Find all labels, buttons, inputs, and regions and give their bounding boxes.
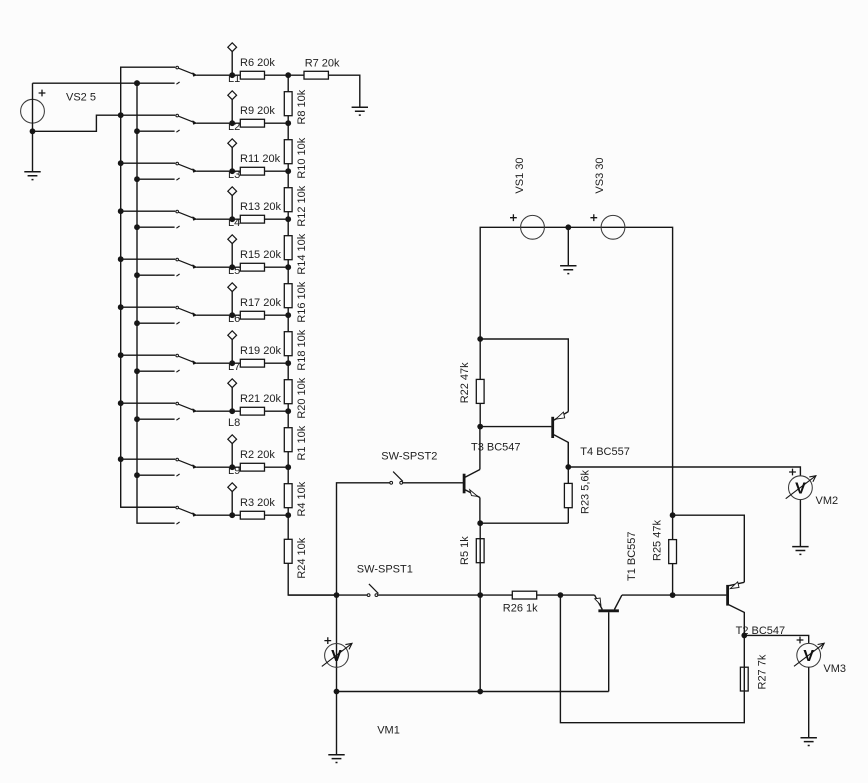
svg-text:R20 10k: R20 10k bbox=[296, 377, 308, 418]
svg-text:R1 10k: R1 10k bbox=[296, 425, 308, 460]
wire VM1 top bbox=[336, 595, 338, 691]
resistor R8 bbox=[284, 89, 308, 124]
wire main column low bbox=[479, 595, 481, 691]
node ladder row9 bbox=[285, 464, 291, 470]
wire L1 lower contact bbox=[137, 82, 175, 84]
wire L7 lower contact bbox=[137, 370, 175, 372]
wire bus B bbox=[137, 83, 175, 523]
svg-text:R7 20k: R7 20k bbox=[305, 57, 340, 69]
label L5 bbox=[228, 265, 240, 277]
wire L4 lower contact bbox=[137, 226, 175, 228]
wire R22 to T4 emitter bbox=[480, 339, 568, 412]
svg-text:R24 10k: R24 10k bbox=[296, 537, 308, 578]
node bus A row9 bbox=[118, 456, 124, 462]
wire R22 branch bbox=[479, 339, 481, 427]
svg-text:R19 20k: R19 20k bbox=[240, 345, 281, 357]
node ladder row2 bbox=[285, 120, 291, 126]
actuator diamond L7 bbox=[228, 331, 237, 340]
node ladder row10 bbox=[285, 512, 291, 518]
svg-text:R16 10k: R16 10k bbox=[296, 281, 308, 322]
svg-text:R18 10k: R18 10k bbox=[296, 329, 308, 370]
wire L3 lower contact bbox=[137, 178, 175, 180]
voltage source VS2 bbox=[21, 90, 96, 123]
actuator diamond L3 bbox=[228, 139, 237, 148]
label L4 bbox=[228, 217, 240, 229]
svg-text:L6: L6 bbox=[228, 313, 240, 325]
svg-text:R2 20k: R2 20k bbox=[240, 449, 275, 461]
switch L4 bbox=[176, 210, 197, 228]
node ladder row4 bbox=[285, 216, 291, 222]
voltage source VS3 bbox=[590, 158, 624, 240]
wire L3 actuator stem bbox=[231, 148, 233, 172]
resistor R11 bbox=[240, 153, 281, 175]
node L7 bbox=[229, 360, 235, 366]
svg-text:R8 10k: R8 10k bbox=[296, 89, 308, 124]
voltmeter VM1 bbox=[322, 637, 400, 736]
node L1 bbox=[229, 72, 235, 78]
wire L2 to ladder bbox=[196, 122, 288, 124]
node T3 emitter node bbox=[477, 520, 483, 526]
wire R27 loop bbox=[560, 595, 744, 723]
switch L6 bbox=[176, 306, 197, 324]
transistor T1 bbox=[595, 531, 639, 691]
node R22 top bbox=[477, 336, 483, 342]
wire L1 actuator stem bbox=[231, 52, 233, 76]
actuator diamond L2 bbox=[228, 91, 237, 100]
node bus B row1 bbox=[134, 80, 140, 86]
svg-text:R14 10k: R14 10k bbox=[296, 233, 308, 274]
wire L6 lower contact bbox=[137, 322, 175, 324]
node main column bottom bbox=[477, 689, 483, 695]
node T2 emitter node bbox=[741, 633, 747, 639]
wire L9 upper contact bbox=[121, 458, 176, 460]
wire VM1 to T1 base bbox=[337, 691, 609, 693]
label L2 bbox=[228, 121, 240, 133]
resistor R18 bbox=[284, 329, 308, 370]
svg-text:R9 20k: R9 20k bbox=[240, 105, 275, 117]
wire SPST1 left bbox=[288, 594, 367, 596]
svg-text:SW-SPST2: SW-SPST2 bbox=[381, 451, 437, 463]
wire L7 actuator stem bbox=[231, 340, 233, 364]
node bus A row7 bbox=[118, 352, 124, 358]
svg-text:V: V bbox=[331, 648, 342, 665]
node ladder row1 bbox=[285, 72, 291, 78]
resistor R7 bbox=[304, 57, 340, 79]
node L9 bbox=[229, 464, 235, 470]
wire VM2 to ground bbox=[799, 500, 801, 547]
actuator diamond L5 bbox=[228, 235, 237, 244]
node R5 bottom bbox=[477, 592, 483, 598]
wire L7 to ladder bbox=[196, 362, 288, 364]
node bus A row3 bbox=[118, 160, 124, 166]
label L8 bbox=[228, 417, 240, 429]
node bus B row3 bbox=[134, 176, 140, 182]
svg-text:R21 20k: R21 20k bbox=[240, 393, 281, 405]
wire T4 base bbox=[480, 426, 551, 428]
voltmeter VM2 bbox=[786, 469, 838, 507]
node ladder row6 bbox=[285, 312, 291, 318]
resistor R24 bbox=[284, 537, 308, 578]
wire L9 lower contact bbox=[137, 474, 175, 476]
svg-text:R22 47k: R22 47k bbox=[459, 362, 471, 403]
svg-text:R3 20k: R3 20k bbox=[240, 497, 275, 509]
actuator diamond L6 bbox=[228, 283, 237, 292]
wire L8 lower contact bbox=[137, 418, 175, 420]
svg-text:VS2 5: VS2 5 bbox=[66, 91, 96, 103]
transistor T3 bbox=[464, 442, 520, 498]
node bus B row4 bbox=[134, 224, 140, 230]
svg-text:R17 20k: R17 20k bbox=[240, 297, 281, 309]
label L1 bbox=[228, 73, 240, 85]
svg-text:R10 10k: R10 10k bbox=[296, 137, 308, 178]
svg-text:V: V bbox=[795, 480, 806, 497]
wire ladder top to ground bbox=[288, 75, 360, 107]
resistor R27 bbox=[740, 654, 768, 691]
wire L3 upper contact bbox=[121, 162, 176, 164]
node L2 bbox=[229, 120, 235, 126]
ground VM2 bbox=[792, 547, 808, 555]
node L3 bbox=[229, 168, 235, 174]
resistor R19 bbox=[240, 345, 281, 367]
resistor R1 bbox=[284, 425, 308, 460]
node L4 bbox=[229, 216, 235, 222]
label L9 bbox=[228, 465, 240, 477]
svg-text:R4 10k: R4 10k bbox=[296, 481, 308, 516]
svg-text:R26 1k: R26 1k bbox=[503, 603, 538, 615]
svg-text:L3: L3 bbox=[228, 169, 240, 181]
wire L8 upper contact bbox=[121, 402, 176, 404]
svg-text:VS1 30: VS1 30 bbox=[514, 158, 526, 194]
svg-text:R6 20k: R6 20k bbox=[240, 57, 275, 69]
node R25 bottom bbox=[670, 592, 676, 598]
wire supply rail bbox=[480, 227, 672, 515]
wire L5 upper contact bbox=[121, 258, 176, 260]
node bus B row6 bbox=[134, 320, 140, 326]
wire L6 to ladder bbox=[196, 314, 288, 316]
voltage source VS1 bbox=[510, 158, 544, 240]
node L8 bbox=[229, 408, 235, 414]
svg-text:R11 20k: R11 20k bbox=[240, 153, 281, 165]
switch L7 bbox=[176, 354, 197, 372]
wire L2 upper contact bbox=[121, 114, 176, 116]
transistor T4 bbox=[553, 412, 630, 466]
wire L2 lower contact bbox=[137, 130, 175, 132]
label L7 bbox=[228, 361, 240, 373]
resistor R21 bbox=[240, 393, 281, 415]
svg-text:VS3 30: VS3 30 bbox=[594, 158, 606, 194]
node ladder row7 bbox=[285, 360, 291, 366]
wire ladder bus bbox=[288, 75, 336, 595]
wire R23 bottom bbox=[480, 522, 568, 524]
ground VS2 bbox=[24, 172, 40, 180]
ground supply bbox=[560, 266, 576, 274]
svg-text:VM1: VM1 bbox=[377, 725, 400, 737]
svg-text:R25 47k: R25 47k bbox=[652, 520, 664, 561]
label L3 bbox=[228, 169, 240, 181]
resistor R13 bbox=[240, 201, 281, 223]
wire L5 to ladder bbox=[196, 266, 288, 268]
svg-text:L2: L2 bbox=[228, 121, 240, 133]
wire to VM3 bbox=[744, 635, 808, 643]
node supply ground tap bbox=[565, 224, 571, 230]
svg-text:T3 BC547: T3 BC547 bbox=[471, 442, 521, 454]
wire bus A bbox=[121, 67, 176, 507]
node bus A row5 bbox=[118, 256, 124, 262]
svg-text:R27 7k: R27 7k bbox=[757, 654, 769, 689]
wire R25 column bbox=[672, 515, 674, 595]
wire L6 upper contact bbox=[121, 306, 176, 308]
resistor R3 bbox=[240, 497, 275, 519]
actuator diamond L8 bbox=[228, 379, 237, 388]
svg-text:T4 BC557: T4 BC557 bbox=[580, 446, 630, 458]
wire L5 lower contact bbox=[137, 274, 175, 276]
resistor R17 bbox=[240, 297, 281, 319]
node bus B row2 bbox=[134, 128, 140, 134]
node R23 top bbox=[565, 464, 571, 470]
resistor R20 bbox=[284, 377, 308, 418]
wire L5 actuator stem bbox=[231, 244, 233, 268]
node bus B row8 bbox=[134, 416, 140, 422]
node bus B row9 bbox=[134, 472, 140, 478]
wire L4 actuator stem bbox=[231, 196, 233, 220]
voltmeter VM3 bbox=[794, 637, 846, 675]
switch L10 bbox=[176, 506, 197, 524]
svg-text:L8: L8 bbox=[228, 417, 240, 429]
actuator diamond L4 bbox=[228, 187, 237, 196]
resistor R25 bbox=[652, 520, 677, 564]
wire T1 collector to node bbox=[622, 594, 727, 596]
wire L9 to ladder bbox=[196, 466, 288, 468]
svg-text:R13 20k: R13 20k bbox=[240, 201, 281, 213]
svg-text:L4: L4 bbox=[228, 217, 240, 229]
resistor R23 bbox=[564, 469, 591, 514]
wire L8 actuator stem bbox=[231, 388, 233, 412]
switch SW-SPST2 bbox=[381, 451, 437, 484]
resistor R5 bbox=[459, 536, 484, 565]
svg-text:R5 1k: R5 1k bbox=[459, 536, 471, 565]
wire L4 to ladder bbox=[196, 218, 288, 220]
wire L10 actuator stem bbox=[231, 492, 233, 516]
wire T4 collector to R23 bbox=[567, 442, 569, 523]
wire L10 to ladder bbox=[196, 514, 288, 516]
wire VS2 vertical bbox=[32, 83, 34, 171]
node bus B row5 bbox=[134, 272, 140, 278]
node VS2 minus bbox=[30, 128, 36, 134]
ground R7 bbox=[352, 107, 368, 115]
node L6 bbox=[229, 312, 235, 318]
wire L8 to ladder bbox=[196, 410, 288, 412]
node R25 top bbox=[670, 512, 676, 518]
node ladder row8 bbox=[285, 408, 291, 414]
wire to VM2 bbox=[568, 467, 800, 476]
resistor R26 bbox=[503, 591, 538, 614]
resistor R14 bbox=[284, 233, 308, 274]
node VM1 bottom bbox=[334, 689, 340, 695]
svg-text:L7: L7 bbox=[228, 361, 240, 373]
resistor R12 bbox=[284, 185, 308, 226]
resistor R4 bbox=[284, 481, 308, 516]
wire R25 top to T2 collector bbox=[673, 515, 745, 582]
wire SPST2 left bbox=[337, 483, 464, 595]
wire L6 actuator stem bbox=[231, 292, 233, 316]
resistor R6 bbox=[240, 57, 275, 79]
resistor R15 bbox=[240, 249, 281, 271]
wire L2 actuator stem bbox=[231, 100, 233, 124]
resistor R16 bbox=[284, 281, 308, 322]
wire L7 upper contact bbox=[121, 354, 176, 356]
wire L10 upper contact bbox=[121, 506, 176, 508]
resistor R10 bbox=[284, 137, 308, 178]
wire VM1 to ground bbox=[336, 692, 338, 755]
node bus B row7 bbox=[134, 368, 140, 374]
wire SPST1 to T1 bbox=[378, 594, 595, 596]
switch L1 bbox=[176, 66, 197, 84]
resistor R9 bbox=[240, 105, 275, 127]
svg-text:L1: L1 bbox=[228, 73, 240, 85]
switch L2 bbox=[176, 114, 197, 132]
svg-text:R15 20k: R15 20k bbox=[240, 249, 281, 261]
svg-text:V: V bbox=[803, 648, 814, 665]
label L6 bbox=[228, 313, 240, 325]
node T4 base node bbox=[477, 424, 483, 430]
wire VM3 to ground bbox=[808, 667, 810, 737]
node SPST2 column joins bbox=[334, 592, 340, 598]
svg-text:L9: L9 bbox=[228, 465, 240, 477]
wire VS2 plus to bus B bbox=[33, 82, 138, 84]
switch L5 bbox=[176, 258, 197, 276]
svg-text:R23 5,6k: R23 5,6k bbox=[580, 469, 592, 514]
svg-text:L5: L5 bbox=[228, 265, 240, 277]
wire T3 emitter bbox=[479, 498, 481, 524]
wire L4 upper contact bbox=[121, 210, 176, 212]
actuator diamond L1 bbox=[228, 43, 237, 52]
node bus A row4 bbox=[118, 208, 124, 214]
transistor T2 bbox=[728, 582, 786, 637]
node ladder row3 bbox=[285, 168, 291, 174]
resistor R2 bbox=[240, 449, 275, 471]
switch L8 bbox=[176, 402, 197, 420]
svg-text:VM2: VM2 bbox=[816, 495, 839, 507]
wire L9 actuator stem bbox=[231, 444, 233, 468]
actuator diamond L9 bbox=[228, 435, 237, 444]
actuator diamond L10 bbox=[228, 483, 237, 492]
switch SW-SPST1 bbox=[357, 563, 413, 596]
wire ground tap bbox=[567, 227, 569, 265]
node R26 right bbox=[558, 592, 564, 598]
node L10 bbox=[229, 512, 235, 518]
wire L1 to ladder bbox=[196, 74, 288, 76]
wire T3 collector bbox=[479, 427, 481, 470]
svg-text:VM3: VM3 bbox=[823, 663, 846, 675]
svg-text:T1 BC557: T1 BC557 bbox=[626, 531, 638, 581]
svg-text:R12 10k: R12 10k bbox=[296, 185, 308, 226]
node bus A row2 bbox=[118, 112, 124, 118]
resistor R22 bbox=[459, 362, 484, 404]
node bus B row1 bbox=[134, 80, 140, 86]
svg-text:SW-SPST1: SW-SPST1 bbox=[357, 563, 413, 575]
node bus A row8 bbox=[118, 400, 124, 406]
wire VS2 minus to bus A bbox=[33, 115, 121, 131]
switch L3 bbox=[176, 162, 197, 180]
wire L3 to ladder bbox=[196, 170, 288, 172]
node L5 bbox=[229, 264, 235, 270]
ground VM1 bbox=[328, 755, 344, 763]
switch L9 bbox=[176, 458, 197, 476]
node ladder row5 bbox=[285, 264, 291, 270]
wire R5 column bbox=[479, 523, 481, 595]
node bus A row6 bbox=[118, 304, 124, 310]
ground VM3 bbox=[801, 738, 817, 746]
